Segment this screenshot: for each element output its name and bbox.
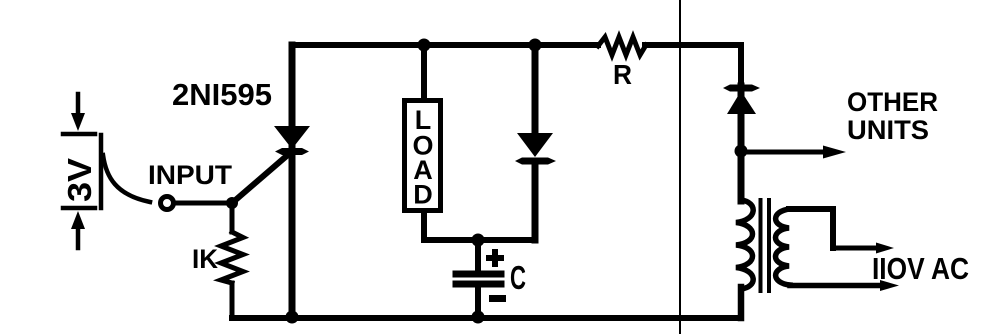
svg-text:IK: IK (192, 244, 218, 274)
svg-text:2NI595: 2NI595 (172, 77, 272, 112)
svg-text:D: D (413, 180, 433, 210)
svg-text:C: C (510, 259, 526, 296)
svg-text:R: R (613, 59, 632, 90)
svg-text:OTHER: OTHER (847, 87, 938, 117)
svg-text:IIOV AC: IIOV AC (872, 251, 969, 286)
svg-text:INPUT: INPUT (148, 160, 233, 190)
svg-text:3V: 3V (61, 158, 98, 202)
svg-text:UNITS: UNITS (847, 115, 929, 145)
